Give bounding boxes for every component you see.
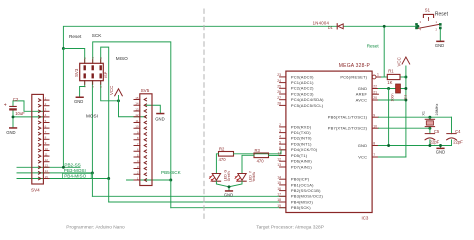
connector SV5	[140, 88, 152, 186]
svg-text:PC0(ADC0): PC0(ADC0)	[291, 74, 314, 79]
svg-text:14: 14	[135, 102, 139, 106]
svg-text:PD7(AIN1): PD7(AIN1)	[291, 164, 312, 169]
ground below crystal caps	[436, 148, 445, 155]
label PB4-MISO framed	[63, 173, 92, 178]
svg-text:25: 25	[277, 85, 281, 89]
svg-text:+: +	[4, 103, 7, 109]
svg-text:Target Processor: Atmega 328P: Target Processor: Atmega 328P	[256, 225, 324, 231]
SV5 pin 13	[134, 107, 147, 112]
SV4 pin 2	[39, 102, 50, 107]
IC3 pin 15 PB1(OC1A)	[277, 181, 314, 187]
IC3 pin 24 PC1(ADC1)	[277, 79, 314, 85]
wire MOSI drop to rail	[91, 173, 93, 196]
wire C5 top lead	[429, 128, 431, 133]
node switch junction	[416, 25, 419, 28]
SV5 pin 2	[134, 171, 147, 176]
wire LED yellow cathode to gnd node	[229, 181, 242, 191]
SV4 pin 1	[39, 96, 50, 101]
svg-text:12: 12	[277, 157, 281, 161]
IC U1 MEGA 328-P box	[286, 63, 372, 220]
svg-text:26: 26	[277, 90, 281, 94]
svg-text:PD3(INT1): PD3(INT1)	[291, 142, 312, 147]
SV4 pin 6	[39, 124, 50, 129]
SV4 pin 9	[39, 141, 50, 146]
node Reset top-left junction	[62, 47, 65, 50]
wire MOSI rail to IC PB3	[92, 195, 286, 197]
wire SCK rail to IC PB5	[171, 207, 286, 209]
svg-text:17: 17	[277, 193, 281, 197]
wire C5 bottom to gnd row	[429, 140, 431, 146]
svg-text:470: 470	[219, 157, 227, 162]
SV3 pin stubs bottom	[84, 81, 86, 85]
crystal X1	[421, 103, 439, 126]
svg-text:16MHz: 16MHz	[435, 103, 439, 115]
node MISO junction	[107, 177, 110, 180]
svg-text:SV4: SV4	[31, 188, 40, 193]
svg-text:11: 11	[277, 152, 281, 156]
SV5 pin 6	[134, 148, 147, 153]
svg-text:3: 3	[279, 129, 281, 133]
node GND row junction	[387, 87, 390, 90]
supply VCC right arrow	[402, 57, 410, 64]
IC3 pin 7 VCC	[358, 153, 378, 159]
svg-text:R1: R1	[388, 69, 394, 74]
IC3 pin 13 PD7(AIN1)	[277, 163, 312, 169]
capacitor C5	[425, 129, 440, 145]
SV5 pin 1	[134, 176, 147, 181]
SV4 pin 10	[39, 147, 50, 152]
node gnd row at C5	[428, 144, 431, 147]
wire PB5-SCK row from SV5 pin1	[127, 179, 171, 181]
svg-text:23: 23	[277, 73, 281, 77]
svg-text:13: 13	[45, 164, 49, 168]
svg-text:Reset: Reset	[435, 12, 449, 18]
svg-text:GND: GND	[155, 117, 164, 122]
IC3 pin 5 PD3(INT1)	[279, 140, 312, 146]
svg-text:AREF: AREF	[356, 92, 368, 97]
svg-text:GND: GND	[436, 150, 445, 155]
wire VCC column	[405, 66, 407, 157]
connector SV3	[74, 57, 108, 88]
svg-text:Programmer: Arduino Nano: Programmer: Arduino Nano	[66, 225, 125, 231]
svg-text:X1: X1	[421, 111, 425, 116]
wire MISO drop to rail	[108, 179, 110, 203]
svg-text:22pF: 22pF	[430, 140, 440, 145]
svg-text:1K: 1K	[387, 80, 392, 85]
svg-text:IC3: IC3	[362, 216, 369, 221]
LED yellow	[235, 170, 256, 182]
S1 moving contact	[417, 24, 440, 28]
svg-text:20: 20	[373, 96, 377, 100]
wire pin1 to R1	[382, 76, 388, 78]
svg-text:15: 15	[277, 181, 281, 185]
svg-text:GND: GND	[224, 193, 233, 198]
ground below SV3	[74, 97, 84, 105]
svg-text:C1: C1	[403, 95, 407, 100]
svg-text:PD6(AIN0): PD6(AIN0)	[291, 159, 312, 164]
svg-text:13: 13	[277, 163, 281, 167]
svg-text:10: 10	[373, 124, 377, 128]
wire MISO rail to IC PB4	[109, 201, 286, 203]
svg-text:PB3-MOSI: PB3-MOSI	[64, 168, 86, 173]
svg-text:PB2(SS/OC1B): PB2(SS/OC1B)	[291, 188, 321, 193]
wire VCC junction to SV5 pin12	[119, 101, 146, 117]
svg-text:470: 470	[257, 158, 265, 163]
wire crystal top lead	[429, 117, 431, 119]
wire MISO from SV3	[101, 47, 109, 178]
SV4 pin 12	[39, 158, 50, 163]
SV5 pin 8	[134, 136, 147, 141]
svg-text:12: 12	[135, 113, 139, 117]
wire PB2-SS stub row	[17, 166, 80, 168]
SV5 pin 4	[134, 159, 147, 164]
diode D1 1N4004	[313, 20, 344, 30]
svg-text:14: 14	[277, 175, 281, 179]
svg-text:VCC: VCC	[109, 86, 114, 95]
ground below LEDs	[224, 190, 233, 197]
node VCC junction left	[117, 99, 120, 102]
SV4 pin 14	[39, 169, 50, 174]
svg-text:VCC: VCC	[358, 154, 367, 159]
svg-text:7: 7	[373, 153, 375, 157]
svg-text:PB2-SS: PB2-SS	[64, 163, 80, 168]
resistor R3	[254, 148, 269, 164]
svg-text:2: 2	[279, 123, 281, 127]
IC3 pin 1 PC6(/RESET)	[340, 73, 381, 80]
svg-text:AVCC: AVCC	[356, 97, 368, 102]
svg-text:Yellow: Yellow	[252, 172, 256, 182]
svg-text:GND: GND	[74, 99, 83, 104]
supply VCC left arrow	[115, 89, 123, 96]
svg-text:GND: GND	[435, 43, 444, 48]
svg-text:D1: D1	[328, 25, 333, 30]
ground below C2	[6, 127, 17, 135]
IC3 pin 11 PD5(T1)	[277, 152, 307, 158]
IC3 pin 22 GND	[358, 85, 379, 91]
node crystal top junction	[428, 116, 431, 119]
svg-text:PC6(/RESET): PC6(/RESET)	[340, 74, 367, 79]
svg-text:R2: R2	[219, 146, 225, 151]
wire SV3 vcc lead to junction	[101, 81, 119, 101]
svg-text:S1: S1	[425, 7, 431, 12]
SV5 pin 5	[134, 153, 147, 158]
wire LED green cathode to gnd node	[216, 181, 229, 187]
svg-text:PB0(ICP): PB0(ICP)	[291, 177, 310, 182]
svg-text:PB7(XTAL2/TOSC2): PB7(XTAL2/TOSC2)	[328, 126, 368, 131]
wire VCC arrow stem left	[118, 96, 120, 101]
wire pin10 XTAL2 row	[378, 127, 430, 129]
wire C4 drop	[451, 117, 453, 133]
svg-text:SV5: SV5	[141, 88, 150, 93]
svg-text:VCC: VCC	[396, 57, 401, 66]
wire pin9 XTAL1 row	[378, 116, 451, 118]
IC3 pin 4 PD2(INT0)	[279, 135, 312, 141]
wire pin8 GND row	[378, 145, 451, 147]
wire R1 right to VCC column	[400, 76, 406, 78]
IC3 pin 6 PD4(XCK/T0)	[279, 146, 318, 152]
IC3 pin 26 PC3(ADC3)	[277, 90, 314, 96]
SV5 pin 12	[134, 113, 147, 118]
SV4 pin 4	[39, 113, 50, 118]
capacitor C1 100n	[390, 84, 407, 102]
svg-text:24: 24	[277, 79, 281, 83]
wire C2 bottom junction to SV4 pin4	[13, 116, 45, 118]
node gnd row at gnd col	[387, 144, 390, 147]
IC3 pin 25 PC2(ADC2)	[277, 85, 314, 91]
wire MOSI from SV3 down	[91, 81, 93, 173]
svg-text:9: 9	[373, 113, 375, 117]
svg-text:C5: C5	[434, 129, 440, 134]
svg-text:PD5(T1): PD5(T1)	[291, 153, 308, 158]
IC3 pin 8 GND	[358, 142, 379, 148]
wire GND column down	[388, 89, 390, 146]
svg-text:MOSI: MOSI	[86, 113, 98, 118]
svg-text:5: 5	[279, 140, 281, 144]
SV4 pin 7	[39, 130, 50, 135]
svg-text:15: 15	[135, 96, 139, 100]
node VCC col at GND row	[404, 87, 407, 90]
svg-text:MEGA 328-P: MEGA 328-P	[339, 63, 371, 69]
wire pin20 AVCC row	[378, 99, 406, 101]
svg-text:14: 14	[45, 169, 49, 173]
node C2 bottom junction	[12, 115, 15, 118]
svg-text:10: 10	[135, 125, 139, 129]
svg-text:PB3(MOSI/OC2): PB3(MOSI/OC2)	[291, 194, 324, 199]
svg-text:Green: Green	[227, 171, 231, 181]
IC3 pin 2 PD0(RXD)	[279, 123, 312, 129]
IC3 pin 9 PB6(XTAL1/TOSC1)	[328, 113, 379, 119]
svg-text:4: 4	[279, 135, 281, 139]
svg-text:11: 11	[135, 119, 138, 123]
svg-text:18: 18	[277, 198, 281, 202]
switch S1 Reset	[415, 7, 448, 31]
svg-text:10uF: 10uF	[15, 111, 25, 116]
wire PB4-MISO row	[17, 178, 109, 180]
wire anode side of D1 to switch	[344, 25, 417, 27]
SV5 pin 9	[134, 130, 147, 135]
svg-text:Reset: Reset	[69, 34, 82, 39]
IC3 pin 12 PD6(AIN0)	[277, 157, 312, 163]
svg-text:1: 1	[377, 73, 379, 77]
capacitor C2	[4, 97, 25, 116]
SV3 pin stubs top	[84, 60, 86, 64]
wire SCK drop to rail	[170, 180, 172, 208]
separator dashed line	[203, 9, 205, 222]
svg-text:15: 15	[45, 175, 49, 179]
SV5 pin 15	[134, 96, 147, 101]
SV5 pin 7	[134, 142, 147, 147]
svg-text:27: 27	[277, 96, 281, 100]
IC3 pin 19 PB5(SCK)	[277, 204, 311, 210]
SV4 pin 11	[39, 152, 50, 157]
IC3 pin 10 PB7(XTAL2/TOSC2)	[328, 124, 379, 130]
ground below S1	[435, 41, 445, 48]
svg-text:13: 13	[135, 107, 139, 111]
node crystal bottom junction	[428, 127, 431, 130]
wire gnd symbol stub	[440, 146, 442, 148]
svg-text:100n: 100n	[390, 94, 394, 102]
wire SV5 pin14 to GND	[146, 105, 160, 113]
svg-text:PC4(ADC4/SDA): PC4(ADC4/SDA)	[291, 97, 324, 102]
wire pin22 GND row	[378, 88, 406, 90]
wire SV3 gnd lead	[80, 81, 85, 97]
svg-text:21: 21	[373, 90, 377, 94]
svg-text:PB4(MISO): PB4(MISO)	[291, 199, 314, 204]
ground right of SV5	[155, 113, 164, 122]
svg-text:GND: GND	[6, 130, 15, 135]
svg-text:SCK: SCK	[92, 33, 103, 38]
wire Reset to SV3 pin5	[63, 49, 84, 64]
svg-text:12: 12	[45, 158, 49, 162]
IC3 pin 18 PB4(MISO)	[277, 198, 313, 204]
svg-text:10: 10	[45, 147, 49, 151]
IC3 pin 16 PB2(SS/OC1B)	[277, 187, 321, 193]
node R1 right junction	[404, 76, 407, 79]
SV5 pin 11	[134, 119, 147, 124]
wire R3 left to LED yellow	[242, 155, 254, 173]
wire R3 right to IC PD5	[269, 154, 286, 156]
wire switch right to gnd	[439, 29, 441, 41]
svg-text:MISO: MISO	[116, 56, 128, 61]
wire PB3-MOSI row	[17, 172, 92, 174]
svg-text:11: 11	[45, 152, 48, 156]
svg-text:PC5(ADC5/SCL): PC5(ADC5/SCL)	[291, 103, 324, 108]
svg-text:ISP: ISP	[103, 71, 108, 78]
svg-text:6: 6	[279, 146, 281, 150]
wire SCK from SV3 to SV5 drop	[93, 42, 171, 180]
svg-text:22pF: 22pF	[453, 140, 463, 145]
wire C4 bottom to gnd row	[451, 140, 453, 146]
LED green	[209, 169, 231, 181]
wire R2 right to IC PD4	[234, 150, 286, 154]
node MOSI junction	[91, 171, 94, 174]
IC3 pin 3 PD1(TXD)	[279, 129, 311, 135]
svg-text:C4: C4	[455, 129, 461, 134]
connector SV4	[31, 94, 43, 192]
SV3 contact bars	[84, 65, 86, 70]
svg-text:Reset: Reset	[367, 43, 380, 48]
svg-text:PB1(OC1A): PB1(OC1A)	[291, 182, 314, 187]
svg-text:PB4-MISO: PB4-MISO	[64, 174, 86, 179]
node LED gnd junction	[228, 185, 231, 188]
svg-text:19: 19	[277, 204, 281, 208]
svg-text:PB5-SCK: PB5-SCK	[161, 170, 182, 175]
svg-text:C2: C2	[13, 97, 19, 102]
svg-text:PC2(ADC2): PC2(ADC2)	[291, 86, 314, 91]
svg-text:8: 8	[373, 142, 375, 146]
wire C2 top to SV4 pin3	[13, 101, 45, 111]
capacitor C4	[447, 129, 464, 145]
IC3 pin 28 PC5(ADC5/SCL)	[277, 102, 324, 108]
wire Reset vertical to PB2-SS	[62, 49, 64, 168]
resistor R1	[387, 69, 400, 86]
svg-text:PD2(INT0): PD2(INT0)	[291, 136, 312, 141]
S1 actuator	[423, 14, 433, 17]
SV4 pin 13	[39, 164, 50, 169]
SV5 pin 10	[134, 125, 147, 130]
IC3 pin 17 PB3(MOSI/OC2)	[277, 193, 323, 199]
SV4 pin 3	[39, 108, 50, 113]
svg-text:16: 16	[277, 187, 281, 191]
svg-text:PD0(RXD): PD0(RXD)	[291, 124, 312, 129]
svg-text:SV3: SV3	[74, 68, 79, 77]
svg-text:PD4(XCK/T0): PD4(XCK/T0)	[291, 147, 318, 152]
svg-text:22: 22	[373, 85, 377, 89]
node VCC col at AVCC row	[404, 99, 407, 102]
wire pin7 VCC row	[378, 156, 406, 158]
wire crystal bottom lead	[429, 127, 431, 129]
svg-text:R3: R3	[255, 148, 261, 153]
IC3 pin 27 PC4(ADC4/SDA)	[277, 96, 324, 102]
svg-text:28: 28	[277, 102, 281, 106]
IC3 pin 20 AVCC	[356, 96, 379, 102]
wire C2 bottom lead	[12, 111, 14, 128]
wire Reset drop to R1	[383, 26, 385, 77]
svg-text:PC3(ADC3): PC3(ADC3)	[291, 91, 314, 96]
wire Reset top rail	[63, 26, 337, 48]
svg-text:PB6(XTAL1/TOSC1): PB6(XTAL1/TOSC1)	[328, 115, 368, 120]
svg-text:GND: GND	[358, 86, 367, 91]
SV4 pin 8	[39, 136, 50, 141]
node SCK junction	[169, 179, 172, 182]
svg-text:PD1(TXD): PD1(TXD)	[291, 130, 311, 135]
SV5 pin 14	[134, 102, 147, 107]
svg-text:PB5(SCK): PB5(SCK)	[291, 205, 311, 210]
wire R2 left to LED green	[216, 154, 218, 174]
SV4 pin 5	[39, 119, 50, 124]
SV4 pin 15	[39, 175, 50, 180]
svg-text:PC1(ADC1): PC1(ADC1)	[291, 80, 314, 85]
node Reset/R1 junction	[383, 25, 386, 28]
SV5 pin 3	[134, 165, 147, 170]
IC3 pin 21 AREF	[356, 90, 379, 96]
svg-text:GND: GND	[358, 143, 367, 148]
IC3 pin 23 PC0(ADC0)	[277, 73, 314, 79]
resistor R2	[219, 146, 234, 162]
S1 pads	[415, 23, 418, 26]
IC3 pin 14 PB0(ICP)	[277, 175, 310, 181]
